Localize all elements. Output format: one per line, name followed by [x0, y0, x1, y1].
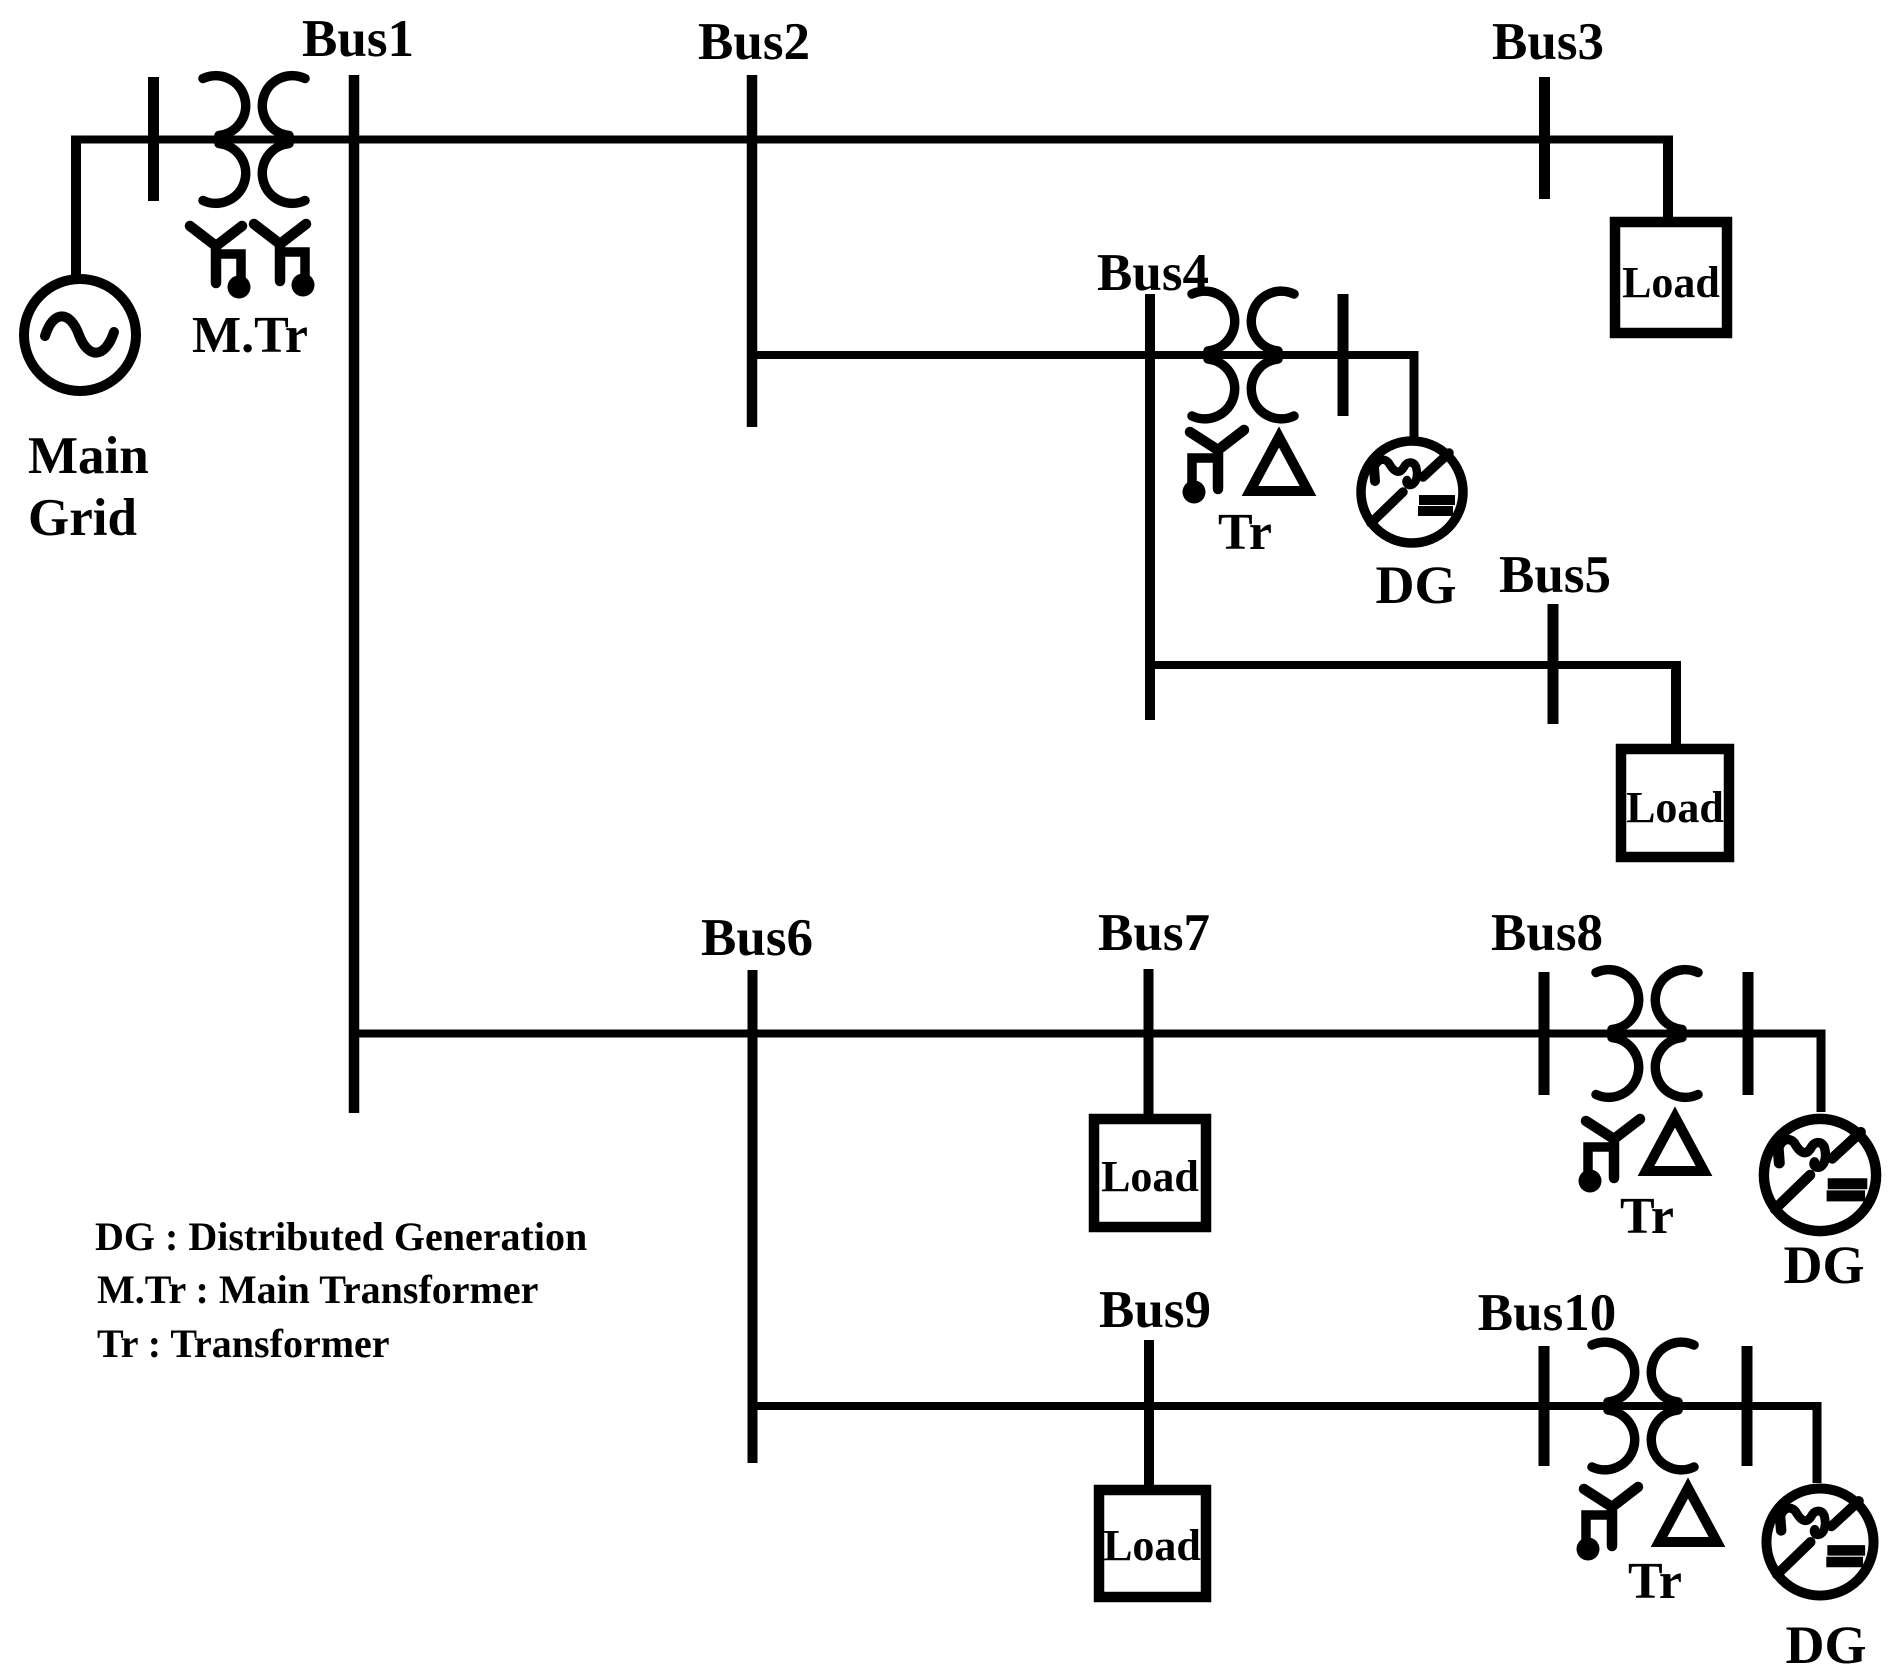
transformer Tr at Bus4 windings	[1192, 291, 1294, 419]
svg-text:M.Tr : Main Transformer: M.Tr : Main Transformer	[97, 1267, 538, 1312]
svg-text:Bus5: Bus5	[1499, 546, 1611, 604]
svg-text:Bus8: Bus8	[1491, 904, 1603, 962]
transformer Tr at Bus10 secondary terminal bar	[1742, 1346, 1753, 1466]
svg-text:Tr: Tr	[1620, 1188, 1674, 1245]
svg-text:Bus7: Bus7	[1098, 904, 1210, 962]
load box at Bus9	[1099, 1490, 1206, 1597]
bus bar Bus6 (vertical bus line)	[748, 970, 758, 1463]
wire feeder Bus4-Bus5 with drop to Load	[1150, 661, 1681, 669]
svg-text:Load: Load	[1622, 258, 1720, 307]
load box at Bus7	[1094, 1119, 1206, 1227]
transformer M.Tr left terminal bar	[148, 77, 159, 201]
DG generator at Bus4	[1361, 441, 1463, 543]
bus bar Bus9 with drop to Load	[1144, 1340, 1154, 1490]
svg-text:Load: Load	[1103, 1521, 1201, 1570]
svg-text:DG: DG	[1784, 1235, 1865, 1295]
AC source Main Grid	[24, 279, 136, 391]
bus bar Bus7 with drop to Load	[1144, 969, 1154, 1119]
transformer Tr at Bus10 windings	[1592, 1342, 1694, 1470]
bus bar Bus8	[1539, 972, 1550, 1095]
wire drop from top feeder to Load at Bus3	[1663, 136, 1673, 223]
wire lower feeder Bus1-Bus6-Bus7-Bus8 and link to DG corner	[354, 1030, 1826, 1038]
transformer Tr at Bus10 grounded wye symbol	[1577, 1487, 1639, 1561]
svg-text:Load: Load	[1626, 783, 1724, 832]
svg-text:DG : Distributed Generation: DG : Distributed Generation	[95, 1214, 587, 1259]
wire drop from corner to DG at Bus4	[1410, 355, 1419, 438]
svg-text:Load: Load	[1101, 1152, 1199, 1201]
transformer Tr at Bus8 secondary terminal bar	[1743, 972, 1754, 1095]
svg-text:M.Tr: M.Tr	[192, 307, 308, 364]
svg-text:Tr: Tr	[1628, 1553, 1682, 1610]
svg-text:Tr: Tr	[1218, 504, 1272, 561]
DG generator at Bus10	[1766, 1488, 1873, 1595]
svg-text:Bus2: Bus2	[698, 13, 810, 71]
bus bar Bus4 (vertical bus line)	[1145, 294, 1155, 720]
wire drop from corner to DG at Bus8	[1817, 1034, 1826, 1113]
transformer Tr at Bus10 delta symbol	[1659, 1488, 1717, 1542]
transformer M.Tr windings	[203, 76, 305, 204]
load box at Bus5	[1621, 749, 1729, 857]
bus bar Bus10	[1539, 1346, 1550, 1466]
bus bar Bus5	[1548, 604, 1559, 724]
svg-text:DG: DG	[1376, 555, 1457, 615]
svg-text:DG: DG	[1786, 1615, 1867, 1675]
svg-text:Grid: Grid	[28, 489, 137, 547]
transformer Tr at Bus8 grounded wye symbol	[1579, 1119, 1641, 1193]
wire bottom feeder Bus6-Bus9-Bus10 and link to DG corner	[752, 1402, 1822, 1410]
svg-text:Bus10: Bus10	[1478, 1284, 1616, 1342]
svg-text:Main: Main	[28, 427, 149, 485]
wire top feeder Bus1-Bus2-Bus3	[76, 136, 1673, 144]
svg-text:Bus3: Bus3	[1492, 13, 1604, 71]
svg-text:Bus1: Bus1	[302, 10, 414, 68]
DG generator at Bus8	[1764, 1119, 1876, 1231]
load box at Bus3	[1615, 222, 1727, 333]
wire drop from feeder corner to Load at Bus5	[1671, 661, 1681, 749]
transformer Tr at Bus8 windings	[1596, 970, 1698, 1098]
transformer Tr at Bus8 delta symbol	[1646, 1117, 1704, 1171]
transformer Tr at Bus4 delta symbol	[1250, 437, 1308, 491]
bus bar Bus2	[747, 75, 758, 427]
svg-text:Tr : Transformer: Tr : Transformer	[97, 1321, 390, 1366]
bus bar Bus1	[349, 75, 360, 1113]
transformer Tr at Bus4 secondary terminal bar	[1338, 294, 1349, 416]
transformer M.Tr primary grounded wye symbol	[190, 226, 251, 299]
svg-text:Bus6: Bus6	[701, 909, 813, 967]
svg-text:Bus9: Bus9	[1099, 1281, 1211, 1339]
bus bar Bus3	[1539, 77, 1550, 199]
wire drop from corner to DG at Bus10	[1813, 1406, 1822, 1483]
transformer Tr at Bus4 grounded wye symbol	[1183, 430, 1245, 504]
transformer M.Tr secondary grounded wye symbol	[254, 224, 315, 297]
wire branch feeder Bus2-Bus4 and link to DG corner	[752, 351, 1419, 359]
wire riser from Main Grid source to top feeder	[71, 136, 81, 279]
